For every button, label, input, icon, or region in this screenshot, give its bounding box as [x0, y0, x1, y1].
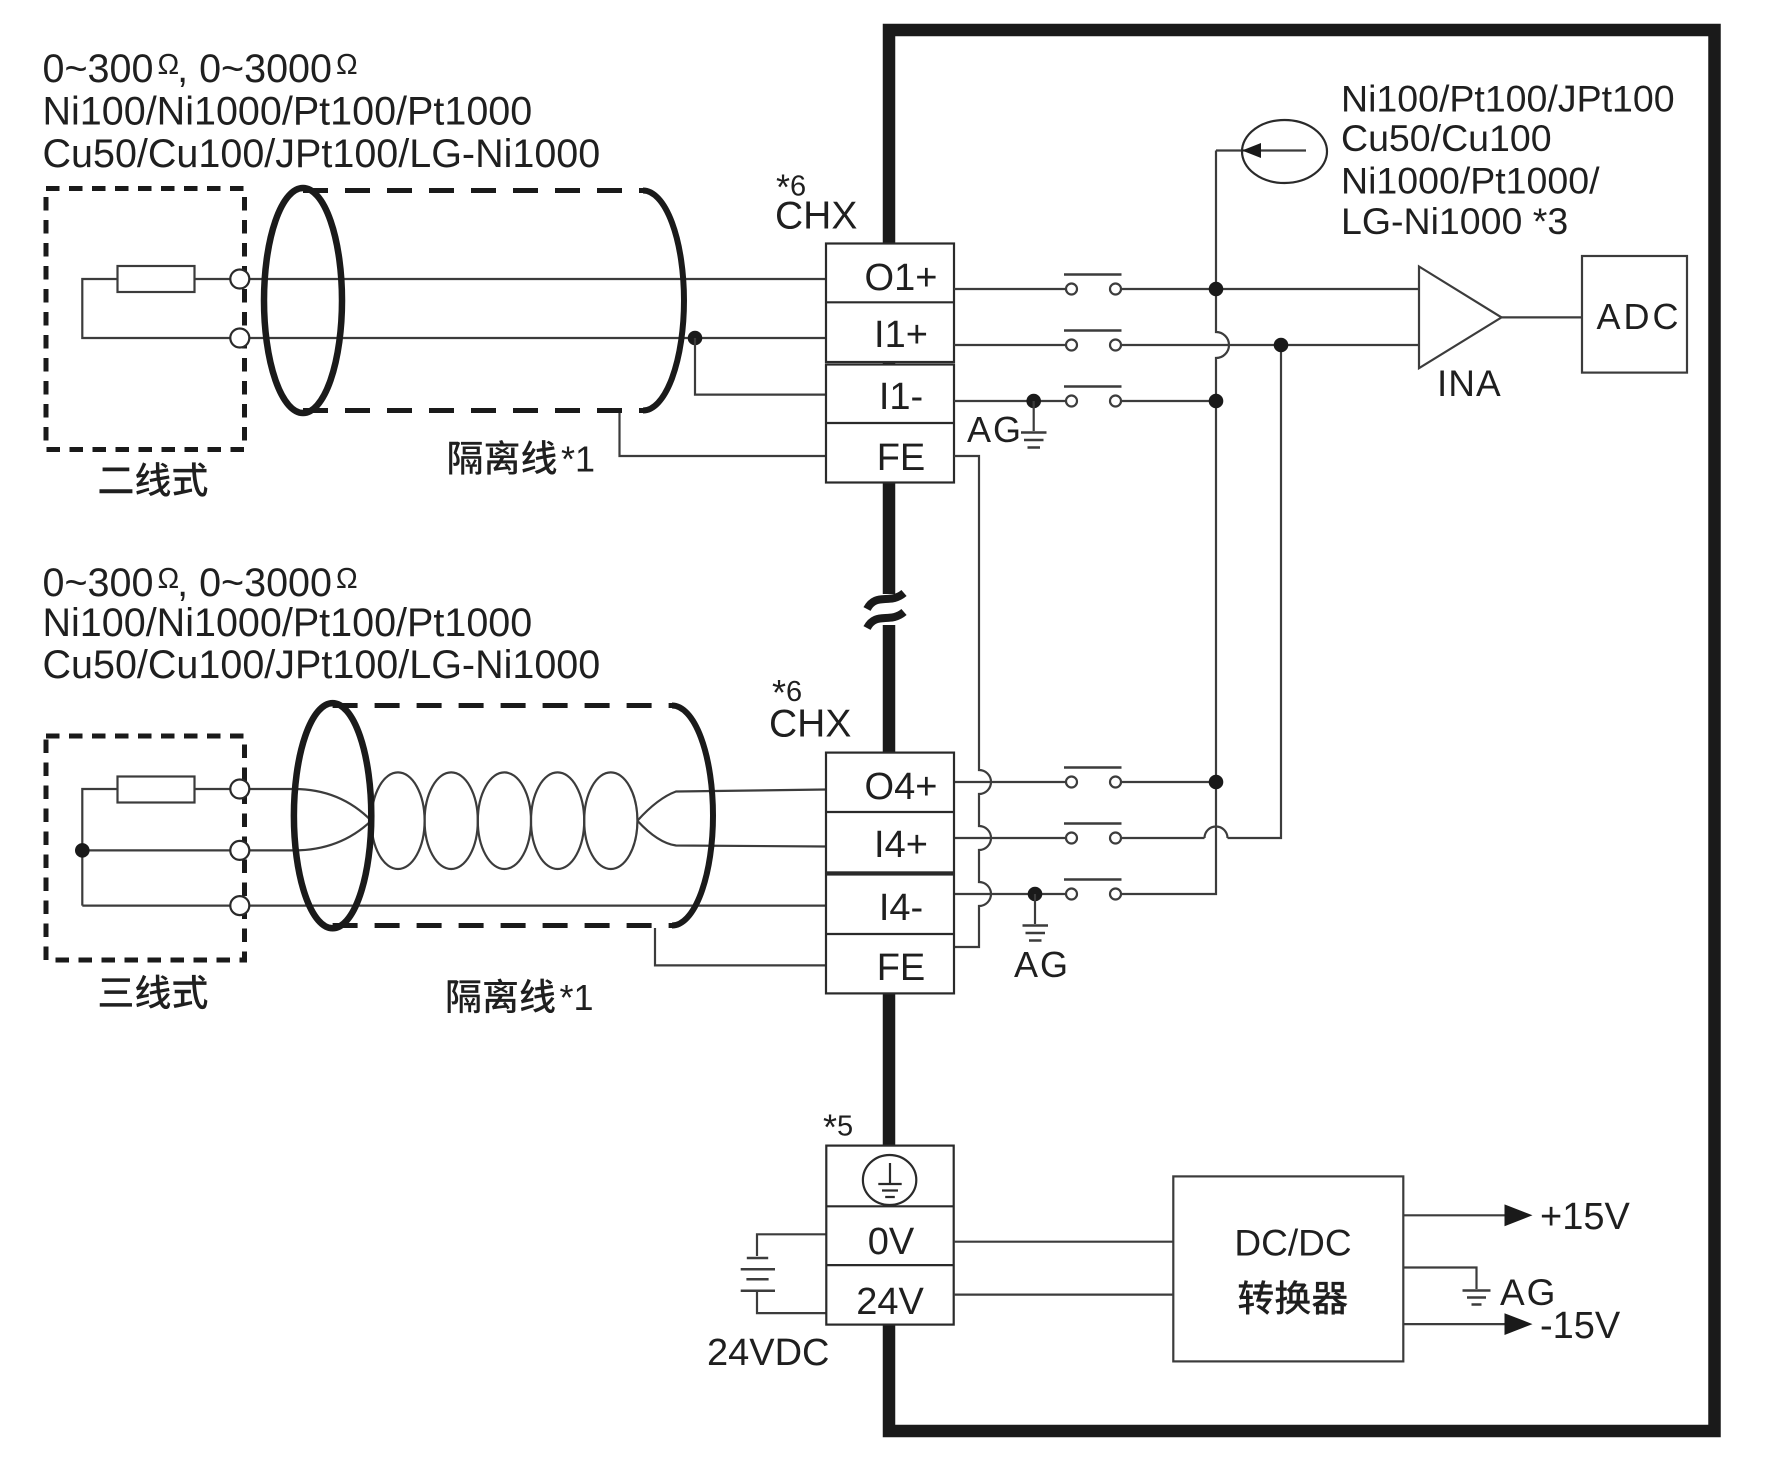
sensor box (dashed) [46, 189, 245, 450]
arrowhead [1242, 143, 1261, 158]
wire through source [1216, 149, 1306, 151]
shielded cable 2 [294, 703, 713, 1018]
twist loop [425, 772, 478, 869]
ADC block [1582, 256, 1687, 373]
shield ellipse [264, 188, 342, 413]
arrowhead [1505, 1313, 1533, 1335]
battery 24VDC [707, 1234, 830, 1374]
CH1 wires right side [954, 289, 1419, 947]
vertical line I1+/I4+ [954, 345, 1281, 838]
bus break gap [878, 594, 902, 625]
SENSOR TEXT BLOCK 1 [43, 47, 601, 176]
svg-text:*1: *1 [560, 977, 594, 1018]
resistor RTD2 [118, 777, 195, 803]
wire to ground [1034, 894, 1036, 924]
svg-text:Ni100/Pt100/JPt100: Ni100/Pt100/JPt100 [1341, 78, 1675, 120]
AG2 ground [1014, 894, 1070, 985]
wire O1+ to INA [954, 288, 1419, 290]
wire 0V [757, 1234, 826, 1256]
wire twist exit top [637, 790, 826, 821]
label 转换器 [1239, 1280, 1348, 1314]
DC/DC converter box [1173, 1176, 1403, 1361]
label 二线式 [99, 462, 207, 496]
svg-text:DC/DC: DC/DC [1234, 1223, 1351, 1264]
switch S5 [1064, 824, 1122, 844]
wire 24V [757, 1292, 826, 1313]
-15V output [1403, 1305, 1621, 1347]
terminal block O4+/I4+ [826, 753, 954, 873]
terminal block I1-/FE [826, 365, 954, 483]
node I1+ junction [1274, 338, 1289, 353]
switch S1 [1064, 275, 1122, 295]
break symbol on bus [867, 593, 904, 628]
ground [1023, 926, 1049, 941]
wire [82, 904, 826, 906]
svg-text:I4+: I4+ [874, 824, 928, 866]
protective earth symbol [863, 1155, 916, 1205]
wire -15V [1403, 1323, 1506, 1325]
cable end cap [672, 706, 713, 926]
module border frame [889, 30, 1715, 1431]
node O4+ junction [1209, 775, 1224, 790]
+15V output [1403, 1196, 1630, 1238]
wire O4+ [954, 781, 1216, 783]
node AG2 junction [1028, 887, 1043, 902]
cell dividers [826, 1206, 953, 1265]
svg-text:*1: *1 [561, 439, 595, 480]
op-amp INA triangle [1419, 267, 1502, 369]
terminal circle [230, 270, 249, 289]
cable dashed outline top [333, 703, 672, 708]
sensor type text right [1341, 78, 1675, 243]
junction dot on I1+ wire [688, 331, 703, 346]
wire [194, 278, 826, 280]
svg-text:-15V: -15V [1540, 1305, 1621, 1347]
shielded cable 1 [264, 188, 684, 480]
wire twist entry bottom [294, 821, 371, 851]
wire [194, 788, 294, 790]
terminal circle [230, 841, 249, 860]
svg-text:INA: INA [1437, 363, 1502, 404]
DC/DC converter box [1173, 1176, 1403, 1361]
AG output [1403, 1268, 1557, 1314]
wire 0V to converter [954, 1241, 1174, 1243]
wire [82, 279, 826, 338]
wire FE down [954, 456, 991, 947]
multiplex vertical line with hop [954, 151, 1229, 895]
sensor box (dashed) [46, 736, 245, 960]
svg-text:Ni1000/Pt1000/: Ni1000/Pt1000/ [1341, 160, 1600, 202]
twist loop [478, 772, 531, 869]
wire INA to ADC [1502, 316, 1583, 318]
svg-text:LG-Ni1000 *3: LG-Ni1000 *3 [1341, 200, 1568, 242]
svg-text:FE: FE [877, 947, 926, 989]
svg-text:24VDC: 24VDC [707, 1332, 830, 1374]
label 三线式 [100, 975, 208, 1009]
svg-text:AG: AG [967, 409, 1023, 450]
label 隔离线*1 [449, 440, 556, 475]
SENSOR TEXT BLOCK 2 [43, 561, 601, 687]
svg-text:Cu50/Cu100: Cu50/Cu100 [1341, 117, 1552, 159]
svg-text:I1+: I1+ [874, 314, 928, 356]
break squiggle [867, 593, 904, 609]
AG1 ground [967, 401, 1047, 450]
svg-text:0~300Ω, 0~3000Ω: 0~300Ω, 0~3000Ω [43, 561, 358, 605]
svg-text:24V: 24V [856, 1281, 924, 1323]
svg-text:ADC: ADC [1596, 296, 1681, 337]
svg-text:Ni100/Ni1000/Pt100/Pt1000: Ni100/Ni1000/Pt100/Pt1000 [43, 601, 533, 645]
terminal circle [230, 780, 249, 799]
current source [1216, 120, 1327, 183]
terminal block O1+/I1+ [826, 244, 954, 363]
terminal block CH1 [826, 244, 954, 483]
svg-text:CHX: CHX [769, 703, 851, 746]
twisted pair [294, 772, 826, 869]
wire [82, 789, 294, 906]
switch S2 [1064, 331, 1122, 351]
node AG1 junction [1026, 394, 1041, 409]
RTD sensor 2 (three wire) [46, 736, 826, 1009]
terminal block I4-/FE [826, 875, 954, 994]
wire AG [1403, 1268, 1476, 1290]
svg-text:Cu50/Cu100/JPt100/LG-Ni1000: Cu50/Cu100/JPt100/LG-Ni1000 [43, 643, 601, 687]
break squiggle [867, 612, 904, 628]
svg-text:I1-: I1- [879, 376, 923, 418]
RTD sensor 1 (two wire) [46, 189, 826, 497]
switch S4 [1064, 768, 1122, 788]
svg-text:0~300Ω, 0~3000Ω: 0~300Ω, 0~3000Ω [43, 47, 358, 91]
cable dashed outline top [303, 188, 643, 193]
svg-text:O4+: O4+ [865, 766, 938, 808]
junction dot [75, 843, 90, 858]
ADC box [1582, 256, 1687, 373]
terminal circle [230, 896, 249, 915]
svg-text:I4-: I4- [879, 887, 923, 929]
wire to I1- [695, 338, 826, 395]
power terminal block [826, 1146, 953, 1325]
battery plates [741, 1258, 775, 1291]
svg-text:O1+: O1+ [865, 257, 938, 299]
cable dashed outline bottom [333, 923, 672, 928]
switch S3 [1064, 387, 1122, 407]
label 隔离线*1 [448, 978, 555, 1013]
wire shield2 to FE [655, 928, 826, 965]
resistor RTD1 [118, 266, 195, 292]
wire shield to FE [620, 413, 827, 456]
wire I1+ to INA [954, 344, 1419, 346]
cable end cap [643, 191, 684, 411]
cable dashed outline bottom [303, 408, 643, 413]
wire to ground [1033, 401, 1035, 431]
shield ellipse [294, 703, 371, 928]
svg-text:Cu50/Cu100/JPt100/LG-Ni1000: Cu50/Cu100/JPt100/LG-Ni1000 [43, 132, 601, 176]
wire twist exit bottom [637, 821, 826, 847]
switch S6 [1064, 880, 1122, 900]
svg-text:FE: FE [877, 437, 926, 479]
terminal circle [230, 329, 249, 348]
ground [1021, 433, 1047, 448]
svg-text:0V: 0V [868, 1221, 915, 1263]
twist loop [584, 772, 637, 869]
node O1+ junction [1209, 282, 1224, 297]
terminal block CH4 [826, 753, 954, 994]
wire +15V [1403, 1214, 1506, 1216]
wire I1- [954, 400, 1216, 402]
earth symbol strokes [878, 1163, 901, 1197]
svg-text:AG: AG [1014, 944, 1070, 985]
twist loop [531, 772, 584, 869]
twist loop [371, 772, 424, 869]
svg-text:*5: *5 [823, 1107, 853, 1148]
svg-text:Ni100/Ni1000/Pt100/Pt1000: Ni100/Ni1000/Pt100/Pt1000 [43, 90, 533, 134]
wire 24V to converter [954, 1293, 1174, 1295]
op-amp INA [1419, 267, 1582, 405]
svg-text:+15V: +15V [1540, 1196, 1630, 1238]
ground [1463, 1291, 1491, 1305]
node I1- junction [1209, 394, 1224, 409]
wire twist entry top [294, 789, 371, 821]
power terminal block body [826, 1146, 953, 1325]
svg-text:CHX: CHX [775, 195, 857, 238]
arrowhead [1505, 1204, 1533, 1226]
current source ellipse [1242, 120, 1327, 183]
